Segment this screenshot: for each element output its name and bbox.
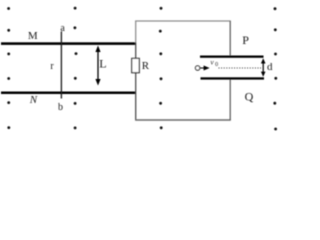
rail N (bottom conducting rail) — [1, 92, 136, 95]
velocity arrow v0 — [200, 67, 204, 69]
field dots column 2 — [74, 7, 78, 130]
plate Q (bottom capacitor plate) — [201, 77, 265, 79]
svg-text:d: d — [267, 61, 273, 73]
svg-text:0: 0 — [215, 62, 218, 68]
L dimension arrow (double headed) — [95, 46, 100, 86]
svg-text:b: b — [58, 102, 63, 113]
wire from plate Q to bottom — [229, 80, 231, 121]
svg-text:P: P — [242, 33, 249, 47]
svg-text:L: L — [99, 57, 106, 71]
field dots column 1 — [7, 7, 10, 129]
circuit box bottom wire — [135, 119, 231, 121]
plate P (top capacitor plate) — [200, 56, 264, 58]
d dimension arrow (double headed) — [261, 58, 266, 77]
svg-text:a: a — [60, 23, 65, 34]
svg-text:Q: Q — [245, 90, 254, 104]
field dots column 4 — [273, 7, 277, 130]
svg-text:M: M — [28, 30, 38, 42]
circuit box left wire — [135, 21, 137, 43]
circuit box top wire — [135, 20, 231, 22]
dashed center line — [219, 67, 262, 69]
wire from top to plate P — [229, 21, 231, 56]
resistor R — [132, 58, 140, 72]
svg-text:R: R — [142, 60, 150, 72]
svg-text:N: N — [29, 94, 38, 106]
particle O entering the plates — [195, 66, 199, 70]
field dots column 3 — [159, 7, 163, 129]
rod ab (sliding conductor) — [60, 32, 62, 99]
rail M (top conducting rail) — [1, 42, 136, 45]
